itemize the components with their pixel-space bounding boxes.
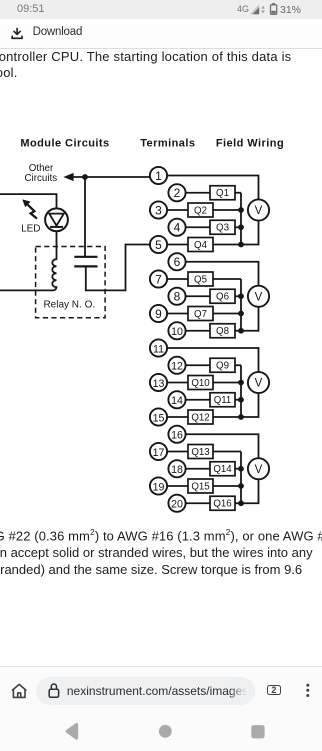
svg-text:Q9: Q9 [216,361,229,372]
svg-text:15: 15 [153,412,165,424]
svg-text:V: V [255,205,263,217]
svg-text:Terminals: Terminals [140,138,195,150]
svg-text:Q15: Q15 [191,481,209,492]
wire capacitor to terminal 5 [86,245,150,291]
svg-text:7: 7 [155,272,162,286]
wire terminal 18 to Q14 [186,468,210,470]
wire coil to left [0,289,53,291]
wire Q7 to bus [213,313,241,315]
wire Q4 to bus [213,244,241,246]
svg-text:Q1: Q1 [216,188,229,199]
wire terminal 12 to Q9 [186,364,210,366]
output Q11 [210,393,235,407]
svg-text:Q11: Q11 [214,395,232,406]
junction dot bus group 2 at terminal 9 [238,311,244,317]
wire terminal 17 to Q13 [167,451,188,453]
output Q15 [188,479,213,493]
svg-text:16: 16 [171,430,183,442]
svg-text:Q4: Q4 [194,240,208,251]
wire voltmeter V3 to bus [241,393,259,417]
svg-text:13: 13 [153,378,165,390]
junction dot bus group 3 at terminal 14 [238,397,244,403]
svg-text:V: V [255,378,263,390]
wire terminal 14 to Q11 [186,399,210,401]
wire terminal 8 to Q6 [186,295,210,297]
voltmeter V2 [248,286,269,307]
wire junction to capacitor [84,177,86,256]
document text bottom [0,524,322,579]
terminal 17 [150,443,167,460]
wire terminal 19 to Q15 [167,485,188,487]
voltmeter V3 [248,372,269,393]
svg-text:9: 9 [155,307,162,321]
svg-text:Field Wiring: Field Wiring [216,138,284,150]
wire terminal 5 to Q4 [167,244,188,246]
junction dot bus group 3 at terminal 13 [238,380,244,386]
lightning arrow LED emission [22,199,37,218]
output Q14 [210,462,235,476]
svg-text:Q7: Q7 [194,309,207,320]
wire Q14 to bus [235,468,241,470]
svg-text:Q16: Q16 [213,499,231,510]
wire terminal 2 to Q1 [186,192,210,194]
svg-text:Q5: Q5 [194,274,207,285]
svg-text:Q12: Q12 [191,412,209,423]
junction dot bus group 1 at terminal 5 [238,242,244,248]
output Q10 [188,376,213,390]
terminal 13 [150,374,167,391]
wire Q8 to bus [235,330,241,332]
output Q12 [188,410,213,424]
wire common terminal 11 to voltmeter V3 [167,348,258,372]
svg-text:Q10: Q10 [191,378,210,389]
junction dot bus group 2 at terminal 8 [238,293,244,299]
svg-text:18: 18 [171,464,183,476]
svg-text:Q8: Q8 [216,326,229,337]
terminal 15 [150,408,167,425]
terminal 10 [168,322,185,339]
svg-text:LED: LED [21,224,40,235]
junction dot node A [82,174,88,180]
svg-text:Other: Other [29,163,54,174]
terminal 2 [168,184,185,201]
wire Q12 to bus [213,416,241,418]
terminal 7 [150,270,167,287]
terminal 16 [168,426,185,443]
wire Q2 to bus [213,209,241,211]
wire Q3 to bus [235,226,241,228]
wire terminal 4 to Q3 [186,226,210,228]
status bar [0,0,322,19]
wire LED to coil [56,231,58,260]
wire common terminal 16 to voltmeter V4 [186,434,259,458]
wire voltmeter V1 to bus [241,221,259,245]
output Q2 [188,203,213,217]
document text top [0,49,322,81]
voltmeter V4 [248,458,269,479]
wire terminal 9 to Q7 [167,313,188,315]
terminal 18 [168,460,185,477]
output Q1 [210,186,235,200]
wire terminal 13 to Q10 [167,382,188,384]
wire Q9 to bus [235,364,241,366]
wire Q16 to bus [235,502,241,504]
relay coil L1 [52,259,56,290]
svg-text:Q13: Q13 [191,447,209,458]
output Q4 [188,238,213,252]
terminal 3 [150,201,167,218]
relay N.O. dashed box [36,247,106,318]
output Q7 [188,307,213,321]
terminal 6 [168,253,185,270]
voltmeter V1 [248,199,269,220]
wire Q1 to bus [235,192,241,194]
svg-text:11: 11 [153,343,164,355]
svg-text:10: 10 [171,326,183,338]
svg-text:12: 12 [171,361,183,373]
terminal 8 [168,288,185,305]
chrome toolbar [0,666,322,751]
svg-text:Q2: Q2 [194,205,207,216]
terminal 5 [150,236,167,253]
terminal 12 [168,357,185,374]
output Q6 [210,289,235,303]
wire Q5 to bus [213,278,241,280]
wire terminal 20 to Q16 [186,502,210,504]
wire Q11 to bus [235,399,241,401]
bus group 4 [240,452,242,504]
node Other Circuits label [24,163,57,184]
wire voltmeter V2 to bus [241,307,259,331]
wire terminal 7 to Q5 [167,278,188,280]
svg-text:V: V [255,291,263,303]
output Q5 [188,272,213,286]
capacitor C1 [74,257,97,267]
output Q3 [210,220,235,234]
wire common terminal 1 to voltmeter V1 [167,176,258,200]
terminal 20 [168,495,185,512]
junction dot bus group 4 at terminal 19 [238,483,244,489]
bus group 2 [240,279,242,331]
junction dot bus group 4 at terminal 18 [238,466,244,472]
junction dot bus group 1 at terminal 3 [238,207,244,213]
svg-text:3: 3 [155,203,162,217]
nav bar [0,715,322,750]
terminal 11 [150,339,167,356]
svg-text:1: 1 [155,169,162,183]
svg-text:2: 2 [174,186,181,200]
svg-text:8: 8 [174,290,181,304]
wire left supply [0,194,57,208]
wire Q15 to bus [213,485,241,487]
output Q13 [188,445,213,459]
svg-text:19: 19 [153,481,165,493]
svg-text:Q14: Q14 [213,464,232,475]
svg-text:4: 4 [174,221,181,235]
wire Q13 to bus [213,451,241,453]
svg-text:20: 20 [171,499,183,511]
svg-text:Circuits: Circuits [24,173,57,184]
download bar [0,19,322,49]
terminal 1 [150,167,167,184]
wire terminal 10 to Q8 [186,330,210,332]
wire Q6 to bus [235,295,241,297]
svg-text:14: 14 [171,395,183,407]
wire common terminal 6 to voltmeter V2 [186,262,259,286]
output Q8 [210,324,235,338]
svg-text:5: 5 [155,238,162,252]
wire Q10 to bus [213,382,241,384]
bus group 1 [240,193,242,245]
wire terminal 3 to Q2 [167,209,188,211]
terminal 19 [150,477,167,494]
bus group 3 [240,365,242,417]
svg-text:Q6: Q6 [216,292,229,303]
terminal 14 [168,391,185,408]
junction dot bus group 1 at terminal 4 [238,224,244,230]
junction dot bus group 4 at terminal 20 [238,500,244,506]
arrow to other circuits [63,173,73,181]
output Q16 [210,496,235,510]
svg-text:Module Circuits: Module Circuits [20,138,109,150]
junction dot bus group 3 at terminal 15 [238,414,244,420]
wire terminal 1 to other circuits [71,176,150,178]
svg-text:V: V [255,464,263,476]
svg-text:Relay N. O.: Relay N. O. [43,300,95,311]
output Q9 [210,358,235,372]
svg-text:17: 17 [153,447,165,459]
wire voltmeter V4 to bus [241,479,259,503]
terminal 9 [150,305,167,322]
svg-text:Q3: Q3 [216,223,229,234]
svg-text:6: 6 [174,255,181,269]
terminal 4 [168,219,185,236]
wire terminal 15 to Q12 [167,416,188,418]
junction dot bus group 2 at terminal 10 [238,328,244,334]
LED D1 [45,208,68,231]
